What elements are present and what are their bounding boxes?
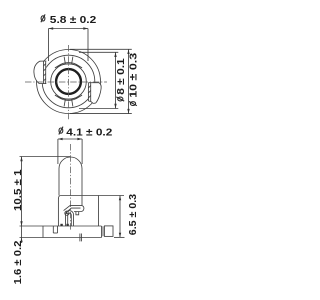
svg-text:10.5 ± 1: 10.5 ± 1 xyxy=(13,169,24,211)
svg-text:8 ± 0.1: 8 ± 0.1 xyxy=(116,58,127,95)
svg-text:4.1 ± 0.2: 4.1 ± 0.2 xyxy=(66,127,113,138)
svg-text:6.5 ± 0.3: 6.5 ± 0.3 xyxy=(128,193,139,235)
svg-text:1.6 ± 0.2: 1.6 ± 0.2 xyxy=(13,240,24,284)
svg-text:5.8 ± 0.2: 5.8 ± 0.2 xyxy=(50,15,97,26)
svg-text:10 ± 0.3: 10 ± 0.3 xyxy=(129,52,140,98)
